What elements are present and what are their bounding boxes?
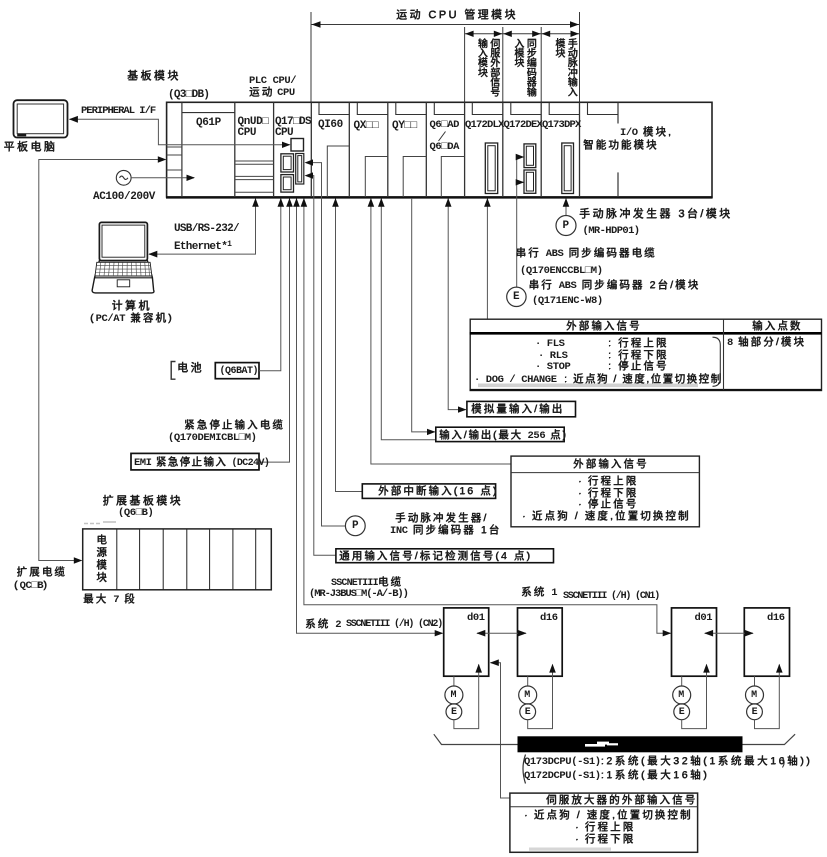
module divider Q6AD/Q172DLX [464,102,466,197]
Q17DS CPU connector slot 2 [281,175,294,193]
servo amplifier external input signal box [510,793,698,852]
QY module top notch [396,103,427,115]
circle E serial ABS synchronous encoder [507,287,526,306]
wire expansion cable from rack to extension base [39,156,167,563]
module divider QnUD/Q17DS [273,102,275,197]
faint greeked row in servo box [529,848,611,851]
label max 7 stages [83,594,137,607]
vertical label power supply module [94,534,108,588]
item stroke upper limit servo [575,822,635,834]
IO area top notch [588,103,619,115]
wire PERIPHERAL I/F from rack CPU to tablet [69,116,291,148]
module label Q17DS CPU [275,117,311,140]
battery box Q6BAT [215,363,259,379]
label external interrupt input [378,486,498,498]
vertical label synchronous encoder input module [511,38,536,102]
label MR-HDP01 [583,226,640,238]
wire Q6AD to analog IO box [445,198,467,413]
label extension cable [17,567,67,579]
broken continuation divider in IO area [617,102,619,197]
module label QI60 [318,119,343,131]
Q172DLX module top notch [472,103,503,115]
label system 1 [521,587,557,600]
vertical label manual pulse input module [552,38,577,102]
wire to IO box with arrow [412,198,436,435]
label d16 servo system2 [540,613,558,625]
motor M and encoder E circles servo3 [673,664,710,729]
wire system1 SSCNET from rack to servo d01 [301,198,672,636]
module divider Q172DLX/Q172DEX [502,102,504,197]
label SSCNET CN1 [563,591,659,602]
module label QY [392,120,417,132]
circle P manual pulse generator 3 units [556,216,576,236]
Q172DEX module top notch [511,103,541,115]
label manual pulse generator INC [395,513,488,525]
label battery [177,362,204,374]
note Q173DCPU line1 [524,756,812,769]
wire servo d01 to servo amp external input signal box [490,659,510,798]
label tablet PC [4,141,58,153]
servo amplifier d16 system1 [744,608,789,676]
table row RLS [538,351,568,363]
label PLC CPU / motion CPU [249,75,296,100]
label Q170ENCCBL [520,266,603,278]
label system 2 [305,619,341,632]
Q6AD module top notch [434,103,464,115]
Q173DPX module top notch [549,103,579,115]
label manual pulse generator 3 units [579,208,732,220]
label AC100/200V [93,191,155,203]
item stroke lower limit [578,488,638,500]
wire CPU connector to general input signal box [305,172,336,555]
small closing parenthesis after line1 [783,758,785,768]
label d01 servo system2 [467,613,485,625]
note Q172DCPU line2 [524,770,709,783]
main base unit rack outline [166,102,713,197]
wire QX to external input signal box [368,198,511,464]
black redaction bar [518,736,743,752]
dimension arrow: manual pulse input module span [541,27,579,102]
label motion CPU managed modules [396,9,518,21]
external input signal table top right [470,319,822,390]
external interrupt input box [362,484,495,499]
module divider QX/QY [387,102,389,197]
label SSCNET CN2 [346,619,442,630]
big parenthesis around QCPU note [523,755,526,784]
wire EMI box to rack [259,198,293,462]
battery bracket [171,362,175,380]
laptop computer [92,222,154,293]
wire QI60 to external interrupt input box [332,198,362,492]
module label Q61P [196,117,221,129]
motor M and encoder E circles servo2 [519,664,556,729]
label Q171ENC-W8 [532,296,603,308]
wire USB/RS-232/Ethernet laptop to rack [148,198,258,258]
wire system2 SSCNET from rack to servo d01 [293,198,443,636]
module divider QY/Q6AD [425,102,427,197]
module label Q172DEX [504,120,543,132]
label Q6BAT [220,366,259,377]
wire CPU connector to manual pulse generator P [305,159,346,526]
module label QnUD CPU [238,117,269,140]
item near point dog servo [524,810,692,822]
label d01 servo system1 [695,613,713,625]
wire Q172DEX connectors to serial ABS encoder E [516,154,525,287]
wire Q173DPX to manual pulse generator P [563,198,570,215]
motor M and encoder E circles servo1 [445,664,482,729]
module divider Q61P/QnUD [234,102,236,197]
module label QX [354,120,379,132]
label serial ABS encoder 2 units [529,280,701,293]
QI60 face step [327,146,349,197]
item stroke lower limit servo [575,834,635,846]
Q6AD face step [441,157,464,198]
Q17DS CPU tall SSCNET connector [296,154,304,185]
label P in lower circle [352,520,358,532]
label Q170DEMICBL [168,433,257,445]
table header input points [752,321,802,333]
label input output max 256 [439,430,568,443]
QI60 module top notch [319,103,349,115]
label E in circle [513,291,519,303]
slash between Q6AD and Q6DA labels [439,132,446,142]
label analog input output [471,404,564,416]
brace spanning servo amplifiers [434,734,795,744]
label P in circle [563,220,569,232]
label emergency stop cable [184,420,285,432]
Q172DLX tall connector [485,143,497,194]
dimension arrow: synchronous encoder input module span [503,27,541,102]
faint greeked text row in table [478,384,698,388]
input/output max 256 box [436,427,564,441]
label extension base module [103,495,183,507]
label serial ABS encoder cable [516,248,657,261]
AC power source symbol [116,170,131,185]
QY face step [403,157,426,198]
module label Q172DLX [465,120,504,132]
white marks inside redaction bar [585,742,618,747]
link d01-d16 system1 [704,630,754,637]
servo amplifier d16 system2 [518,608,563,676]
module divider QI60/QX [348,102,350,197]
servo amplifier d01 system1 [672,608,717,676]
Q61P module top tab line [182,112,235,114]
label IO module intelligent function module [620,127,673,140]
servo amplifier d01 system2 [444,608,489,676]
dimension arrow: servo external signal input module span [465,27,503,102]
item stroke upper limit [578,476,638,488]
table row DOG/CHANGE [474,375,557,387]
power slot internal lines [167,147,182,170]
Q172DEX connector lower [524,170,536,193]
module label Q173DPX [542,120,581,132]
label general input signal mark detection [339,551,532,563]
module divider Q172DEX/Q173DPX [540,102,542,197]
general input signal / mark detection box [336,549,554,563]
wire QY join to IO box [378,198,436,440]
motor M and encoder E circles servo4 [746,664,783,729]
tablet PC [14,100,68,137]
label Q3DB [168,89,209,101]
top dimension arrow: motion CPU managed modules span [311,12,580,102]
module divider Q173DPX/IO area [579,102,581,197]
vertical label servo external signal input module [474,38,499,102]
table row STOP [535,362,570,374]
label EMI emergency stop input [134,457,269,470]
label USB RS-232 Ethernet [174,221,239,255]
label computer [112,300,152,312]
rounded bracket around table items [713,337,721,386]
extension base unit [83,529,272,590]
faint scan artifact above extension base [84,522,116,524]
label PERIPHERAL I/F [81,106,155,118]
QX module top notch [357,103,388,115]
label SSCNET III cable [331,577,403,589]
QnUD CPU face stripes [235,161,274,192]
wire battery to rack [259,198,284,371]
item stop signal [578,499,638,511]
Q172DEX connector upper [524,144,536,168]
label d16 servo system1 [767,613,785,625]
table row FLS [535,339,565,351]
Q17DS CPU top connector square [291,139,304,152]
external input signal box right [511,456,699,527]
circle P manual pulse generator / INC encoder [345,516,365,536]
wire Q172DLX to FLS/RLS table [484,198,491,319]
item near point dog [522,511,690,523]
module divider Q17DS/QI60 [310,102,312,197]
label MR-J3BUS [309,589,408,601]
module label Q6DA [430,142,460,154]
label base unit [127,70,181,82]
analog input/output box [467,401,576,416]
wire AC100/200V to power module [131,175,195,181]
labels E encoders [451,707,457,718]
Q173DPX tall connector [562,143,574,194]
QX face step [365,157,388,198]
Q17DS CPU connector slot 1 [281,154,294,172]
labels M motors [451,690,457,701]
table cell 8 axes per module [727,337,806,350]
link d01-d16 system2 [476,630,526,637]
table header external input signal [566,321,642,333]
header servo amplifier external input signal [546,795,697,807]
module label Q6AD [430,120,460,132]
header external input signal box right [573,459,649,471]
EMI emergency stop input box [131,453,259,470]
power slot column divider [181,102,183,197]
